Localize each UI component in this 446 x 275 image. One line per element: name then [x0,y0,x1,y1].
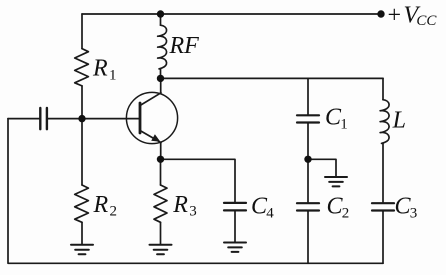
svg-text:R: R [93,192,109,218]
svg-text:4: 4 [266,206,274,222]
svg-text:CC: CC [416,13,437,29]
svg-text:1: 1 [109,68,117,84]
svg-text:R: R [92,56,108,82]
svg-text:1: 1 [340,117,348,133]
svg-text:3: 3 [189,203,197,219]
svg-text:+: + [386,3,402,29]
svg-text:2: 2 [110,203,118,219]
svg-text:R: R [172,192,188,218]
svg-text:2: 2 [342,206,350,222]
svg-text:L: L [392,108,406,134]
svg-text:RF: RF [169,33,200,59]
svg-text:3: 3 [410,206,418,222]
